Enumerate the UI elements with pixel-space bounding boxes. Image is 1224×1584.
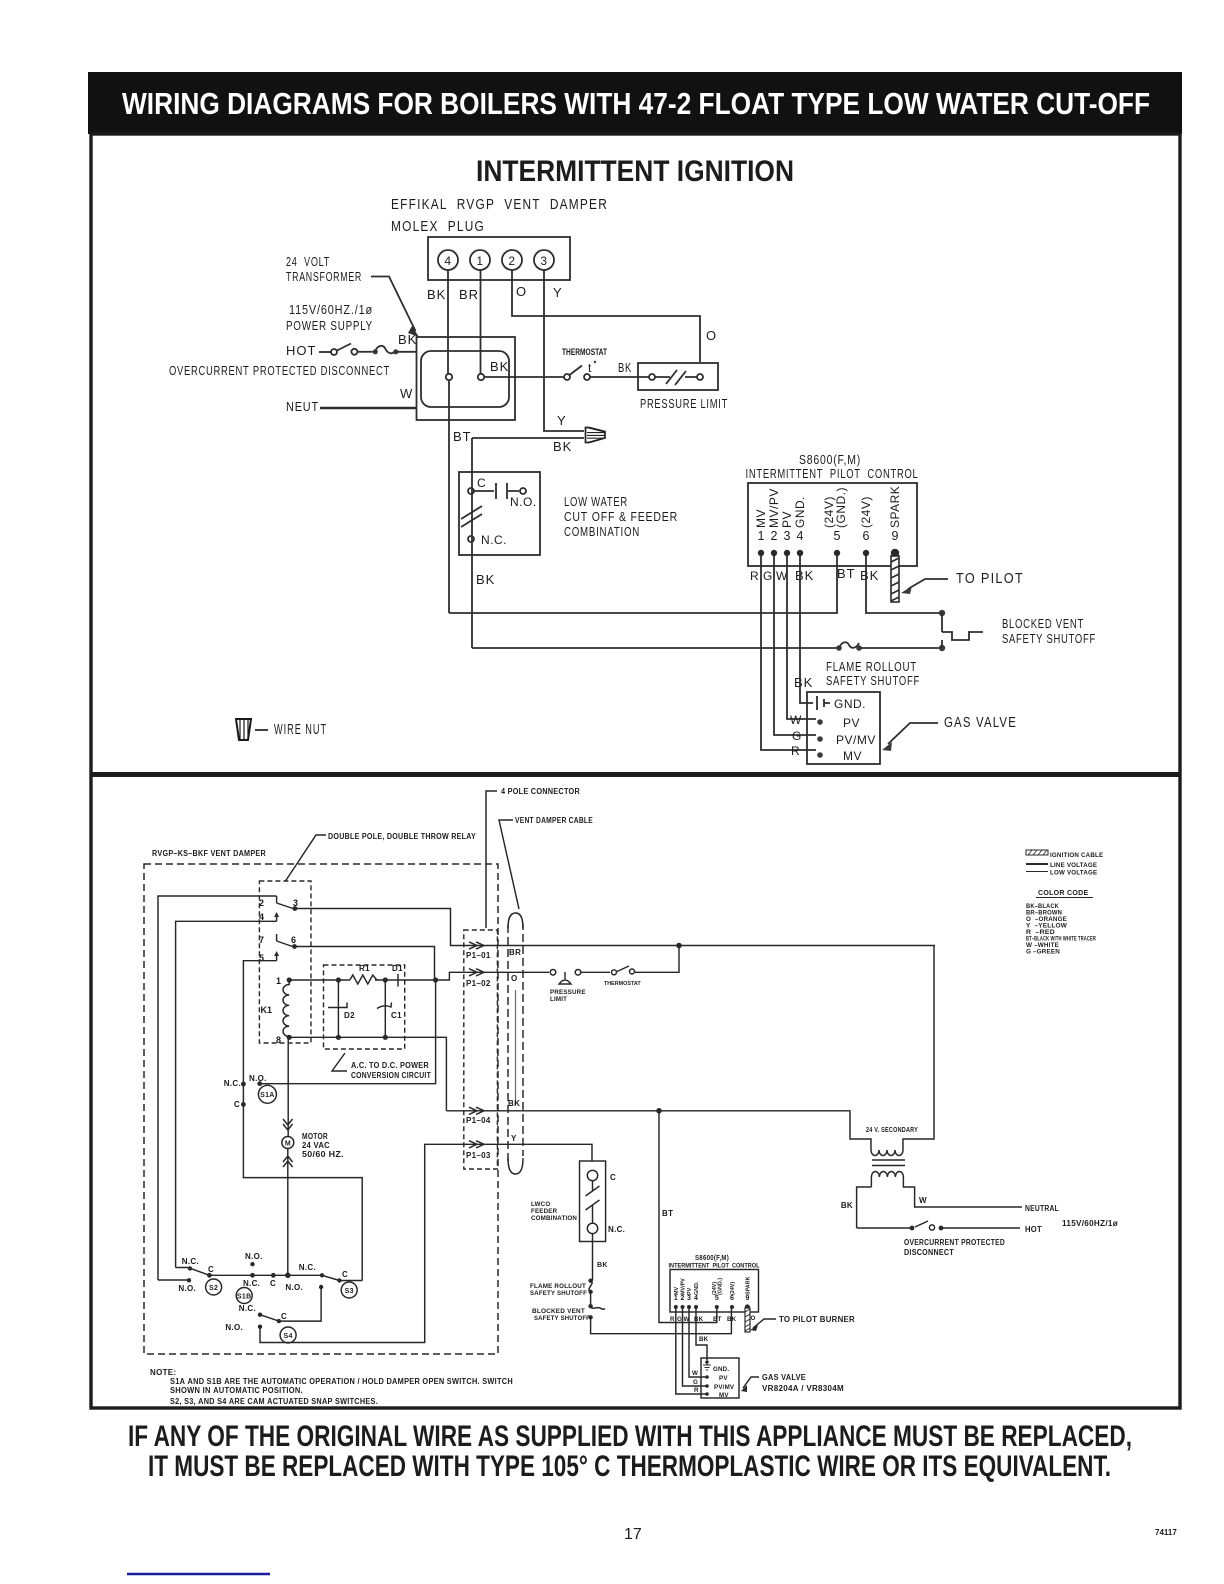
svg-text:FLAME ROLLOUT: FLAME ROLLOUT bbox=[530, 1283, 586, 1290]
svg-text:N.C.: N.C. bbox=[243, 1279, 260, 1288]
svg-text:SAFETY SHUTOFF: SAFETY SHUTOFF bbox=[534, 1315, 590, 1322]
cam switch common wire bbox=[209, 1274, 322, 1276]
svg-text:G: G bbox=[763, 569, 773, 583]
page frame bbox=[91, 134, 1180, 1408]
capacitor C1 bbox=[384, 980, 386, 1037]
wire safety chain to terminal 6 bbox=[591, 1308, 732, 1334]
svg-text:R1: R1 bbox=[359, 964, 370, 973]
blocked vent safety shutoff bbox=[939, 610, 945, 616]
svg-text:C1: C1 bbox=[391, 1011, 402, 1020]
svg-text:INTERMITTENT PILOT CONTROL: INTERMITTENT PILOT CONTROL bbox=[669, 1263, 760, 1270]
svg-text:GND.: GND. bbox=[694, 1281, 700, 1295]
pilot control U1 S8600 bbox=[748, 483, 917, 566]
svg-text:1: 1 bbox=[674, 1295, 678, 1302]
svg-text:W: W bbox=[692, 1370, 698, 1377]
svg-text:THERMOSTAT: THERMOSTAT bbox=[562, 347, 607, 357]
svg-text:N.C.: N.C. bbox=[224, 1079, 241, 1088]
svg-text:R: R bbox=[694, 1387, 699, 1394]
svg-text:TO PILOT: TO PILOT bbox=[956, 571, 1024, 587]
svg-text:VR8204A / VR8304M: VR8204A / VR8304M bbox=[762, 1384, 844, 1393]
svg-text:BLOCKED VENT: BLOCKED VENT bbox=[1002, 616, 1084, 631]
svg-text:S3: S3 bbox=[345, 1288, 354, 1295]
svg-text:VENT DAMPER CABLE: VENT DAMPER CABLE bbox=[515, 816, 593, 825]
svg-text:MV: MV bbox=[674, 1287, 680, 1295]
svg-text:MV: MV bbox=[754, 509, 768, 528]
legend: line voltage bbox=[1026, 863, 1048, 865]
svg-text:BR: BR bbox=[459, 287, 479, 302]
svg-text:BLOCKED VENT: BLOCKED VENT bbox=[532, 1308, 585, 1315]
svg-text:S1B: S1B bbox=[237, 1294, 252, 1301]
svg-text:PV: PV bbox=[719, 1375, 728, 1382]
svg-text:BR: BR bbox=[509, 948, 521, 957]
4 pole connector box (dashed) bbox=[464, 930, 498, 1169]
svg-text:17: 17 bbox=[624, 1526, 642, 1543]
svg-text:COMBINATION: COMBINATION bbox=[531, 1215, 577, 1222]
motor M 24 VAC bbox=[287, 1037, 289, 1136]
wire S1A NO to relay junction bbox=[260, 980, 436, 1084]
svg-text:G –GREEN: G –GREEN bbox=[1026, 949, 1060, 956]
svg-text:N.O.: N.O. bbox=[245, 1252, 263, 1261]
wire BK pin4 to transformer bbox=[447, 270, 449, 374]
svg-text:M: M bbox=[285, 1141, 291, 1148]
svg-text:SHOWN IN AUTOMATIC POSITION.: SHOWN IN AUTOMATIC POSITION. bbox=[170, 1386, 303, 1395]
relay K1 enclosure (dashed) bbox=[259, 881, 311, 1043]
svg-text:115V/60HZ/1ø: 115V/60HZ/1ø bbox=[1062, 1219, 1118, 1228]
svg-text:C: C bbox=[270, 1279, 276, 1288]
wire BK thermostat to pressure limit bbox=[590, 376, 649, 378]
svg-text:SPARK: SPARK bbox=[888, 486, 902, 528]
svg-text:NEUT: NEUT bbox=[286, 399, 319, 414]
svg-text:EFFIKAL RVGP VENT DAMPER: EFFIKAL RVGP VENT DAMPER bbox=[391, 197, 608, 213]
svg-text:SAFETY SHUTOFF: SAFETY SHUTOFF bbox=[1002, 631, 1096, 646]
legend: ignition cable bbox=[1026, 850, 1048, 855]
wire BK LWCO down bbox=[471, 438, 473, 648]
wire S4 NO to P1-03 bbox=[260, 1144, 592, 1342]
svg-text:IF ANY OF THE ORIGINAL WIRE AS: IF ANY OF THE ORIGINAL WIRE AS SUPPLIED … bbox=[128, 1420, 1132, 1453]
pressure limit (bottom) bbox=[550, 970, 556, 976]
svg-text:N.O.: N.O. bbox=[225, 1323, 243, 1332]
P1-03 plug pin bbox=[469, 1141, 484, 1148]
svg-text:R: R bbox=[750, 569, 759, 583]
svg-text:5: 5 bbox=[834, 529, 841, 543]
svg-text:MV: MV bbox=[719, 1392, 729, 1399]
diode D2 bbox=[337, 980, 339, 1037]
wire Y pin3 to wire nut bbox=[544, 270, 584, 431]
pressure limit switch bbox=[638, 363, 718, 390]
svg-text:N.C.: N.C. bbox=[299, 1263, 316, 1272]
vent damper cable outline bbox=[508, 913, 523, 1161]
svg-text:7: 7 bbox=[259, 935, 264, 945]
svg-text:BT: BT bbox=[837, 566, 856, 581]
svg-text:NEUTRAL: NEUTRAL bbox=[1025, 1204, 1059, 1213]
wire thermostat up to BR junction bbox=[635, 946, 679, 973]
svg-text:PRESSURE: PRESSURE bbox=[550, 989, 586, 996]
svg-text:MOTOR: MOTOR bbox=[302, 1132, 328, 1141]
svg-text:FLAME ROLLOUT: FLAME ROLLOUT bbox=[826, 659, 917, 674]
low water cutoff LWCO bbox=[459, 472, 540, 555]
connector J1 molex plug bbox=[428, 237, 570, 280]
svg-text:PRESSURE LIMIT: PRESSURE LIMIT bbox=[640, 396, 728, 411]
blue footer line bbox=[127, 1573, 270, 1576]
svg-text:BK: BK bbox=[476, 572, 495, 587]
wire pin2 to S2 NO bbox=[158, 896, 277, 1280]
svg-text:SAFETY SHUTOFF: SAFETY SHUTOFF bbox=[530, 1290, 587, 1297]
svg-text:HOT: HOT bbox=[1025, 1225, 1042, 1234]
svg-text:S1A: S1A bbox=[260, 1092, 275, 1099]
svg-text:INTERMITTENT PILOT CONTROL: INTERMITTENT PILOT CONTROL bbox=[746, 466, 919, 481]
junction motor / switch row bbox=[285, 1273, 291, 1279]
title bar bbox=[88, 72, 1182, 134]
svg-text:BT: BT bbox=[713, 1316, 722, 1323]
wire BR pin1 to transformer bbox=[480, 270, 482, 374]
wire nut junction bbox=[586, 428, 606, 443]
vent damper enclosure (dashed) bbox=[144, 864, 498, 1354]
svg-text:9: 9 bbox=[745, 1295, 749, 1302]
svg-text:COMBINATION: COMBINATION bbox=[564, 524, 640, 539]
svg-text:3: 3 bbox=[687, 1295, 691, 1302]
svg-text:1: 1 bbox=[476, 254, 483, 268]
svg-text:P1–02: P1–02 bbox=[466, 979, 491, 988]
svg-text:BK: BK bbox=[398, 332, 417, 347]
wire pin6 to junction bbox=[295, 947, 435, 981]
svg-text:SAFETY SHUTOFF: SAFETY SHUTOFF bbox=[826, 673, 920, 688]
svg-text:TO PILOT BURNER: TO PILOT BURNER bbox=[779, 1315, 855, 1324]
svg-text:N.C.: N.C. bbox=[481, 533, 507, 547]
LWCO feeder combination (bottom) bbox=[580, 1161, 606, 1242]
svg-text:4: 4 bbox=[797, 529, 804, 543]
transformer primary winding bbox=[871, 946, 934, 1156]
svg-text:THERMOSTAT: THERMOSTAT bbox=[604, 981, 641, 987]
svg-text:MOLEX PLUG: MOLEX PLUG bbox=[391, 219, 485, 235]
svg-text:5: 5 bbox=[259, 953, 264, 963]
svg-text:R: R bbox=[670, 1316, 675, 1323]
wire BT transformer down bbox=[448, 380, 450, 613]
svg-text:N.O.: N.O. bbox=[510, 495, 537, 509]
svg-text:WIRING DIAGRAMS FOR BOILERS WI: WIRING DIAGRAMS FOR BOILERS WITH 47-2 FL… bbox=[122, 86, 1150, 121]
P1-04 plug pin bbox=[469, 1107, 484, 1114]
svg-text:BK: BK bbox=[860, 568, 879, 583]
wire BK nut to LWCO bbox=[472, 437, 584, 439]
svg-text:(24V): (24V) bbox=[730, 1282, 736, 1295]
svg-text:IT MUST BE REPLACED WITH TYPE: IT MUST BE REPLACED WITH TYPE 105° C THE… bbox=[148, 1450, 1111, 1483]
svg-text:MV/PV: MV/PV bbox=[681, 1278, 687, 1295]
svg-text:24 V. SECONDARY: 24 V. SECONDARY bbox=[866, 1127, 918, 1134]
svg-text:24 VOLT: 24 VOLT bbox=[286, 254, 330, 269]
svg-text:LOW WATER: LOW WATER bbox=[564, 494, 628, 509]
label: A.C. TO D.C. POWER CONVERSION CIRCUIT + leader bbox=[332, 1053, 347, 1071]
svg-text:BK: BK bbox=[618, 360, 632, 375]
gas valve (bottom) bbox=[701, 1358, 739, 1398]
wire BK to gas valve GND bbox=[800, 556, 813, 703]
flame rollout safety shutoff (bottom) bbox=[588, 1279, 592, 1283]
svg-text:N.C.: N.C. bbox=[182, 1257, 199, 1266]
wire BT terminal5 bbox=[449, 556, 837, 613]
wire to thermostat bbox=[581, 971, 610, 973]
svg-text:9: 9 bbox=[892, 529, 899, 543]
blocked vent safety shutoff (bottom) bbox=[590, 1292, 592, 1306]
svg-text:BK: BK bbox=[597, 1262, 608, 1269]
thermostat (bottom) bbox=[612, 970, 617, 975]
svg-text:POWER SUPPLY: POWER SUPPLY bbox=[286, 318, 373, 333]
svg-text:P1–01: P1–01 bbox=[466, 951, 491, 960]
svg-text:MV/PV: MV/PV bbox=[767, 488, 781, 528]
svg-text:BK: BK bbox=[508, 1099, 520, 1108]
svg-text:W: W bbox=[919, 1196, 927, 1205]
svg-text:O: O bbox=[751, 1315, 756, 1322]
wire W to gas valve PV bbox=[787, 556, 816, 719]
svg-text:BK: BK bbox=[795, 568, 814, 583]
svg-text:S2: S2 bbox=[209, 1285, 218, 1292]
overcurrent protected disconnect (bottom) bbox=[857, 1227, 911, 1229]
svg-text:FEEDER: FEEDER bbox=[531, 1208, 558, 1215]
svg-text:O: O bbox=[511, 974, 518, 983]
leader to transformer bbox=[371, 277, 416, 332]
pin 3 bbox=[534, 250, 554, 270]
svg-text:S8600(F,M): S8600(F,M) bbox=[695, 1255, 729, 1262]
svg-text:OVERCURRENT PROTECTED: OVERCURRENT PROTECTED bbox=[904, 1238, 1005, 1247]
junction dots on top wire bbox=[336, 977, 341, 982]
svg-text:2: 2 bbox=[259, 898, 264, 908]
top wire of conversion circuit bbox=[289, 972, 549, 980]
svg-text:BT: BT bbox=[453, 429, 472, 444]
spark electrode (bottom) bbox=[745, 1308, 750, 1332]
svg-text:W: W bbox=[790, 713, 802, 727]
svg-text:LIMIT: LIMIT bbox=[550, 996, 567, 1003]
svg-text:BK: BK bbox=[841, 1201, 853, 1210]
svg-text:IGNITION CABLE: IGNITION CABLE bbox=[1050, 852, 1103, 859]
transformer secondary winding bbox=[871, 1172, 1022, 1208]
svg-text:4: 4 bbox=[444, 254, 451, 268]
svg-text:Y: Y bbox=[557, 413, 567, 428]
svg-text:50/60 HZ.: 50/60 HZ. bbox=[302, 1150, 344, 1159]
svg-text:C: C bbox=[208, 1265, 214, 1274]
svg-text:8: 8 bbox=[276, 1035, 281, 1045]
svg-text:3: 3 bbox=[540, 254, 547, 268]
svg-text:Y: Y bbox=[511, 1134, 517, 1143]
wire BK from P1-04 to transformer bbox=[446, 1111, 871, 1150]
svg-text:PV/MV: PV/MV bbox=[714, 1384, 735, 1391]
svg-text:INTERMITTENT IGNITION: INTERMITTENT IGNITION bbox=[476, 155, 794, 188]
wire S1A C down to switch row bbox=[243, 1104, 362, 1280]
wire pin3 to P1-01 BR bbox=[295, 909, 935, 946]
svg-text:C: C bbox=[234, 1100, 240, 1109]
svg-text:S4: S4 bbox=[284, 1333, 293, 1340]
wire BK LWCO to flame rollout bbox=[472, 647, 837, 649]
svg-text:PV/MV: PV/MV bbox=[836, 733, 876, 747]
svg-text:N.O.: N.O. bbox=[285, 1283, 303, 1292]
svg-text:1: 1 bbox=[758, 529, 765, 543]
svg-text:C: C bbox=[477, 476, 486, 490]
svg-text:G: G bbox=[693, 1379, 698, 1386]
wire BT to terminal 5 bbox=[659, 1111, 717, 1323]
wire pin4 to S2 NC bbox=[176, 921, 277, 1267]
svg-text:HOT: HOT bbox=[286, 343, 316, 358]
wire O pin2 to pressure limit bbox=[512, 270, 700, 362]
a.c. to d.c. conversion enclosure (dashed) bbox=[324, 965, 405, 1049]
svg-text:BK: BK bbox=[553, 439, 572, 454]
bottom wire of conversion circuit bbox=[289, 1037, 446, 1111]
svg-text:D1: D1 bbox=[392, 964, 403, 973]
svg-text:G: G bbox=[677, 1316, 682, 1323]
svg-text:BK: BK bbox=[727, 1316, 737, 1323]
svg-text:PV: PV bbox=[843, 716, 860, 730]
svg-text:COLOR CODE: COLOR CODE bbox=[1038, 890, 1088, 897]
svg-text:GND.: GND. bbox=[834, 697, 866, 711]
svg-text:(GND.): (GND.) bbox=[718, 1278, 724, 1295]
svg-text:LINE VOLTAGE: LINE VOLTAGE bbox=[1050, 862, 1097, 869]
legend: low voltage bbox=[1026, 871, 1048, 873]
svg-text:24 VAC: 24 VAC bbox=[302, 1141, 330, 1150]
svg-text:4: 4 bbox=[259, 912, 264, 922]
svg-text:C: C bbox=[342, 1270, 348, 1279]
svg-text:C: C bbox=[281, 1312, 287, 1321]
svg-text:1: 1 bbox=[276, 976, 281, 986]
svg-text:P1–03: P1–03 bbox=[466, 1151, 491, 1160]
svg-text:S1A AND S1B ARE THE AUTOMATIC: S1A AND S1B ARE THE AUTOMATIC OPERATION … bbox=[170, 1377, 513, 1386]
svg-text:N.O.: N.O. bbox=[178, 1284, 196, 1293]
svg-text:GND.: GND. bbox=[713, 1366, 729, 1373]
P1-01 plug pin bbox=[469, 942, 484, 949]
svg-text:5: 5 bbox=[715, 1295, 719, 1302]
svg-text:A.C. TO D.C. POWER: A.C. TO D.C. POWER bbox=[351, 1061, 429, 1070]
svg-text:(24V): (24V) bbox=[859, 496, 873, 528]
section divider bbox=[91, 772, 1180, 777]
wire inside cable bbox=[515, 990, 517, 1105]
svg-text:t: t bbox=[588, 361, 592, 375]
transformer core bbox=[872, 1160, 905, 1166]
svg-text:BT: BT bbox=[662, 1209, 673, 1218]
svg-text:2: 2 bbox=[771, 529, 778, 543]
svg-text:S2, S3, AND S4 ARE CAM ACTUATE: S2, S3, AND S4 ARE CAM ACTUATED SNAP SWI… bbox=[170, 1397, 378, 1406]
svg-text:BK: BK bbox=[699, 1336, 709, 1343]
wire R to gas valve MV bbox=[761, 556, 816, 750]
wire G to gas valve PV/MV bbox=[774, 556, 816, 735]
svg-text:6: 6 bbox=[730, 1295, 734, 1302]
svg-text:GAS VALVE: GAS VALVE bbox=[762, 1373, 806, 1382]
svg-text:O: O bbox=[706, 328, 717, 343]
svg-text:NOTE:: NOTE: bbox=[150, 1368, 176, 1377]
svg-text:SPARK: SPARK bbox=[745, 1276, 751, 1295]
svg-text:N.C.: N.C. bbox=[608, 1225, 625, 1234]
svg-text:N.C.: N.C. bbox=[239, 1304, 256, 1313]
flame rollout safety shutoff bbox=[836, 645, 842, 651]
svg-text:2: 2 bbox=[681, 1295, 685, 1302]
svg-text:4: 4 bbox=[694, 1295, 698, 1302]
svg-text:K1: K1 bbox=[260, 1005, 272, 1015]
svg-text:74117: 74117 bbox=[1155, 1528, 1177, 1537]
svg-text:D2: D2 bbox=[344, 1011, 355, 1020]
terminal dots bbox=[758, 549, 899, 557]
svg-text:LOW VOLTAGE: LOW VOLTAGE bbox=[1050, 870, 1097, 877]
wire pin5 to S1A bbox=[243, 961, 276, 1084]
svg-text:S8600(F,M): S8600(F,M) bbox=[799, 452, 861, 467]
svg-text:Y: Y bbox=[553, 285, 563, 300]
svg-text:P1–04: P1–04 bbox=[466, 1116, 491, 1125]
svg-text:LWCO: LWCO bbox=[531, 1201, 550, 1208]
svg-text:WIRE NUT: WIRE NUT bbox=[274, 722, 327, 738]
svg-text:BK: BK bbox=[490, 359, 509, 374]
pin 2 bbox=[502, 250, 522, 270]
svg-text:DOUBLE POLE, DOUBLE THROW RELA: DOUBLE POLE, DOUBLE THROW RELAY bbox=[328, 832, 476, 841]
svg-text:BK: BK bbox=[794, 675, 813, 690]
svg-text:C: C bbox=[610, 1173, 616, 1182]
overcurrent protection squiggle bbox=[373, 349, 378, 354]
wire BK transformer to thermostat bbox=[484, 376, 564, 378]
svg-text:2: 2 bbox=[508, 254, 515, 268]
wire BK terminal 4 to gas valve GND bbox=[696, 1307, 707, 1360]
svg-text:115V/60HZ./1ø: 115V/60HZ./1ø bbox=[289, 302, 373, 317]
svg-text:6: 6 bbox=[863, 529, 870, 543]
svg-text:4 POLE CONNECTOR: 4 POLE CONNECTOR bbox=[501, 787, 580, 796]
wire R to MV bbox=[676, 1307, 707, 1394]
P1-02 plug pin bbox=[469, 969, 484, 976]
wire nut legend bbox=[236, 719, 251, 740]
svg-text:TRANSFORMER: TRANSFORMER bbox=[286, 269, 362, 284]
wire W to PV bbox=[689, 1307, 707, 1377]
svg-text:3: 3 bbox=[784, 529, 791, 543]
svg-text:O: O bbox=[516, 284, 527, 299]
svg-text:GND.: GND. bbox=[793, 496, 807, 528]
svg-text:MV: MV bbox=[843, 749, 862, 763]
svg-text:G: G bbox=[792, 729, 802, 743]
svg-text:GAS VALVE: GAS VALVE bbox=[944, 715, 1017, 731]
svg-text:N.O.: N.O. bbox=[249, 1074, 267, 1083]
svg-text:CUT OFF & FEEDER: CUT OFF & FEEDER bbox=[564, 509, 678, 524]
wire G to PV/MV bbox=[683, 1307, 708, 1386]
svg-text:DISCONNECT: DISCONNECT bbox=[904, 1248, 954, 1257]
svg-text:PV: PV bbox=[780, 511, 794, 528]
pin 4 bbox=[438, 250, 458, 270]
wire BK below LWCO bbox=[592, 1234, 594, 1281]
disconnect switch bbox=[319, 351, 331, 353]
svg-text:W: W bbox=[400, 386, 413, 401]
spark electrode bbox=[891, 556, 899, 602]
transformer T1 bbox=[417, 337, 516, 420]
svg-text:PV: PV bbox=[687, 1287, 693, 1295]
svg-text:R: R bbox=[791, 744, 800, 758]
svg-text:(GND.): (GND.) bbox=[834, 487, 848, 528]
svg-text:BK: BK bbox=[427, 287, 446, 302]
gas valve bbox=[807, 692, 880, 764]
svg-text:OVERCURRENT PROTECTED DISCONNE: OVERCURRENT PROTECTED DISCONNECT bbox=[169, 363, 390, 378]
wire S3 NO down to S4 C bbox=[279, 1287, 321, 1321]
svg-text:6: 6 bbox=[291, 935, 296, 945]
wire BK terminal6 to blocked vent bbox=[866, 556, 942, 613]
svg-text:RVGP–KS–BKF VENT DAMPER: RVGP–KS–BKF VENT DAMPER bbox=[152, 849, 266, 858]
svg-text:CONVERSION CIRCUIT: CONVERSION CIRCUIT bbox=[351, 1071, 431, 1080]
wire neutral bbox=[320, 407, 417, 409]
pin 1 bbox=[470, 250, 490, 270]
